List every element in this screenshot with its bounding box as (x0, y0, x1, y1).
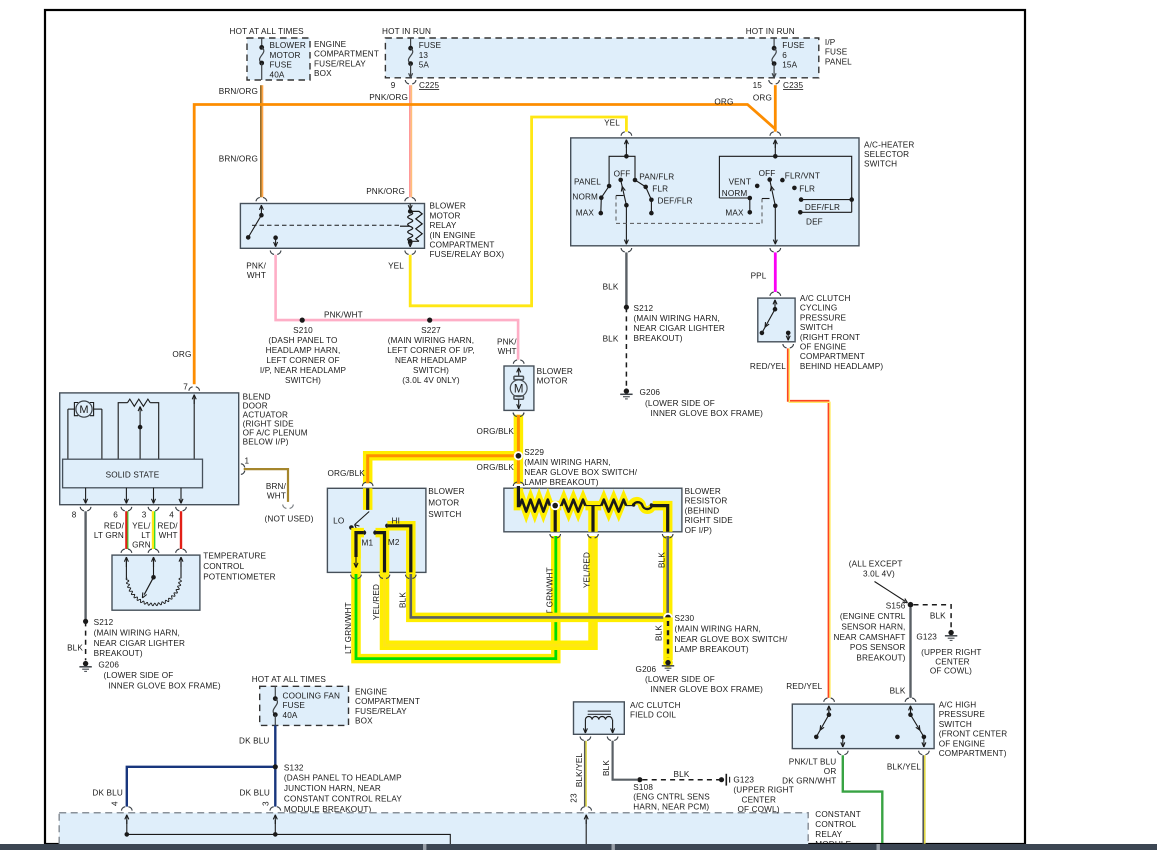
svg-text:9: 9 (391, 81, 396, 90)
field coil symbol (588, 710, 611, 712)
svg-text:LT: LT (141, 531, 150, 540)
svg-text:S132: S132 (284, 763, 304, 772)
svg-text:BLK: BLK (930, 611, 946, 620)
svg-text:BLK: BLK (398, 592, 407, 608)
svg-text:COMPARTMENT: COMPARTMENT (800, 352, 865, 361)
svg-text:FLR/VNT: FLR/VNT (785, 172, 820, 181)
wire ORG/BLK (blower motor to S229) highlighted (514, 415, 524, 456)
pin 7 wire inside actuator (193, 395, 195, 404)
svg-text:OF ENGINE: OF ENGINE (939, 739, 986, 748)
connector arcs into potentiometer (121, 549, 125, 553)
resistor tap junctions (554, 506, 557, 532)
svg-text:M1: M1 (362, 539, 374, 548)
svg-text:RED/YEL: RED/YEL (750, 362, 786, 371)
svg-text:3: 3 (142, 511, 147, 520)
connector arc YEL into selector switch (621, 132, 625, 136)
wire RED/WHT (pin 4 to potentiometer) (180, 511, 182, 549)
svg-text:CONTROL: CONTROL (203, 562, 244, 571)
svg-text:PAN/FLR: PAN/FLR (639, 172, 674, 181)
svg-text:8: 8 (72, 511, 77, 520)
connector C235 (769, 80, 773, 84)
connector arc PNK/ORG into relay (405, 197, 409, 201)
connector arc BRN/ORG into relay (256, 197, 260, 201)
svg-text:G123: G123 (916, 633, 937, 642)
fuse: cooling fan fuse 40A (274, 686, 276, 698)
svg-text:S210: S210 (293, 326, 313, 335)
svg-text:(LOWER SIDE OF: (LOWER SIDE OF (645, 675, 715, 684)
svg-text:BLOWER: BLOWER (537, 367, 573, 376)
svg-text:C235: C235 (783, 81, 803, 90)
svg-text:6: 6 (113, 511, 118, 520)
relay coil (409, 204, 411, 212)
svg-text:FUSE/RELAY: FUSE/RELAY (314, 59, 366, 68)
svg-text:40A: 40A (283, 711, 298, 720)
wire BLK/YEL (field coil to CCRM pin 23) (584, 741, 586, 807)
svg-text:CENTER: CENTER (742, 795, 777, 804)
svg-text:A/C-HEATER: A/C-HEATER (864, 140, 914, 149)
svg-text:BLEND: BLEND (243, 393, 271, 402)
svg-text:DOOR: DOOR (243, 402, 268, 411)
svg-text:BRN/: BRN/ (266, 482, 287, 491)
svg-text:SWITCH: SWITCH (939, 720, 972, 729)
wire PNK/WHT (relay to blower motor) (276, 255, 518, 360)
svg-text:MAX: MAX (576, 209, 595, 218)
svg-text:ORG: ORG (753, 94, 772, 103)
svg-text:DEF/FLR: DEF/FLR (805, 203, 840, 212)
svg-text:BLOWER: BLOWER (428, 487, 464, 496)
svg-text:(3.0L 4V 0NLY): (3.0L 4V 0NLY) (402, 376, 460, 385)
svg-text:1: 1 (245, 457, 250, 466)
svg-text:LT GRN/WHT: LT GRN/WHT (344, 602, 353, 654)
svg-text:SWITCH: SWITCH (428, 510, 461, 519)
svg-text:PNK/ORG: PNK/ORG (369, 93, 408, 102)
svg-text:NEAR CAMSHAFT: NEAR CAMSHAFT (833, 633, 905, 642)
wire BLK/YEL (high pressure switch down) (922, 755, 924, 844)
svg-text:OF COWL): OF COWL) (738, 805, 780, 814)
svg-text:MOTOR: MOTOR (270, 51, 301, 60)
svg-text:YEL: YEL (604, 119, 620, 128)
connector arcs below blower resistor (over wires) (550, 534, 554, 538)
svg-text:WHT: WHT (498, 347, 517, 356)
svg-text:(IN ENGINE: (IN ENGINE (430, 231, 476, 240)
wire BLK (resistor to S230) highlighted (663, 536, 673, 617)
svg-text:RED/: RED/ (158, 521, 179, 530)
svg-text:PRESSURE: PRESSURE (800, 313, 847, 322)
wire BLK (S156 to high pressure switch) (909, 608, 911, 698)
coil: A/C clutch field coil box (574, 702, 625, 734)
svg-text:WHT: WHT (267, 492, 286, 501)
svg-text:CONSTANT CONTROL RELAY: CONSTANT CONTROL RELAY (284, 795, 402, 804)
svg-text:HARN, NEAR PCM): HARN, NEAR PCM) (633, 802, 709, 811)
svg-text:3: 3 (262, 801, 271, 806)
svg-text:POTENTIOMETER: POTENTIOMETER (203, 572, 275, 581)
wire ORG/BLK (S229 to blower resistor) highlighted (514, 456, 524, 484)
svg-text:LT GRN/WHT: LT GRN/WHT (545, 567, 554, 619)
svg-text:HOT IN RUN: HOT IN RUN (746, 27, 795, 36)
svg-text:DEF/FLR: DEF/FLR (658, 196, 693, 205)
svg-text:MAX: MAX (725, 209, 744, 218)
svg-text:FUSE: FUSE (283, 701, 306, 710)
connector arc ORG into selector switch (770, 132, 774, 136)
svg-text:LEFT CORNER OF I/P,: LEFT CORNER OF I/P, (387, 346, 475, 355)
svg-text:PNK/: PNK/ (246, 262, 266, 271)
svg-text:CONSTANT: CONSTANT (815, 810, 861, 819)
svg-text:(MAIN WIRING HARN,: (MAIN WIRING HARN, (524, 458, 610, 467)
svg-text:ENGINE: ENGINE (355, 688, 388, 697)
svg-text:COMPARTMENT: COMPARTMENT (355, 697, 420, 706)
svg-text:HOT IN RUN: HOT IN RUN (382, 27, 431, 36)
svg-text:G123: G123 (733, 775, 754, 784)
svg-text:BLK: BLK (657, 552, 666, 568)
svg-text:4: 4 (169, 511, 174, 520)
svg-text:S212: S212 (634, 304, 654, 313)
wire ORG (C235 to selector switch and to blend door actuator) (774, 85, 777, 132)
svg-text:OF ENGINE: OF ENGINE (800, 343, 847, 352)
svg-text:M: M (514, 383, 524, 395)
switch: A/C clutch cycling pressure switch (758, 298, 795, 342)
contact LO (349, 525, 354, 530)
solid state block (63, 459, 203, 488)
svg-text:G206: G206 (640, 388, 661, 397)
svg-text:GRN: GRN (132, 541, 151, 550)
svg-text:FLR: FLR (799, 185, 815, 194)
svg-text:ORG: ORG (714, 98, 733, 107)
svg-text:BLK/YEL: BLK/YEL (575, 753, 584, 788)
wire BLK dashed to ground (625, 307, 627, 388)
ground G206 (right) (624, 388, 629, 393)
fuse: blower motor fuse 40A (261, 38, 263, 47)
svg-text:JUNCTION HARN, NEAR: JUNCTION HARN, NEAR (284, 784, 381, 793)
svg-text:23: 23 (570, 793, 579, 803)
contact M2 with wire to pin (373, 530, 378, 535)
svg-text:S229: S229 (524, 448, 544, 457)
svg-text:NORM: NORM (572, 193, 598, 202)
svg-text:VENT: VENT (729, 177, 751, 186)
svg-text:G206: G206 (636, 665, 657, 674)
wire BLK (switch HI to S230) highlighted (411, 574, 668, 617)
svg-text:HOT AT ALL TIMES: HOT AT ALL TIMES (230, 27, 305, 36)
svg-text:CENTER: CENTER (935, 657, 970, 666)
connector arc PNK/WHT out of relay (270, 251, 274, 255)
connector arc ORG/BLK into blower resistor (513, 482, 517, 486)
svg-text:DK GRN/WHT: DK GRN/WHT (782, 777, 836, 786)
wire LT GRN/WHT (switch M1 to resistor) highlighted (356, 536, 556, 659)
svg-text:(UPPER RIGHT: (UPPER RIGHT (921, 648, 981, 657)
splice S210 (300, 318, 305, 323)
svg-text:RIGHT SIDE: RIGHT SIDE (685, 516, 734, 525)
contact M1 with wire to pin (362, 530, 367, 535)
wire DK GRN/WHT (high pressure switch to CCRM) (843, 755, 883, 843)
svg-text:3.0L 4V): 3.0L 4V) (863, 570, 895, 579)
svg-text:HEADLAMP HARN,: HEADLAMP HARN, (266, 346, 341, 355)
wire RED/YEL (cycling switch to high pressure switch) (788, 348, 829, 698)
svg-text:A/C CLUTCH: A/C CLUTCH (630, 701, 681, 710)
selector switch right section (mode) (774, 140, 776, 148)
svg-text:13: 13 (419, 51, 429, 60)
svg-text:(MAIN WIRING HARN,: (MAIN WIRING HARN, (388, 336, 474, 345)
selector switch left section (blower speed) (625, 140, 627, 148)
svg-text:(MAIN WIRING HARN,: (MAIN WIRING HARN, (675, 624, 761, 633)
svg-text:OFF: OFF (614, 169, 631, 178)
svg-text:BLOWER: BLOWER (270, 41, 306, 50)
svg-text:(RIGHT FRONT: (RIGHT FRONT (800, 333, 860, 342)
svg-text:PNK/WHT: PNK/WHT (324, 311, 363, 320)
svg-text:CYCLING: CYCLING (800, 304, 837, 313)
svg-text:BEHIND HEADLAMP): BEHIND HEADLAMP) (800, 362, 884, 371)
svg-text:WHT: WHT (159, 531, 178, 540)
svg-text:COMPARTMENT: COMPARTMENT (314, 50, 379, 59)
svg-text:RED/YEL: RED/YEL (786, 682, 822, 691)
fuse box: engine compartment fuse/relay box (cooling fan) (260, 686, 349, 725)
svg-text:OF COWL): OF COWL) (930, 667, 972, 676)
svg-text:FUSE: FUSE (825, 48, 848, 57)
svg-text:BLK: BLK (603, 283, 619, 292)
svg-text:BLOWER: BLOWER (685, 487, 721, 496)
svg-text:RESISTOR: RESISTOR (685, 497, 728, 506)
connector C225 (405, 80, 409, 84)
svg-text:DEF: DEF (806, 217, 823, 226)
ground G206 (center, below S230) (663, 658, 673, 668)
svg-text:(LOWER SIDE OF: (LOWER SIDE OF (645, 399, 715, 408)
svg-text:SWITCH): SWITCH) (285, 376, 321, 385)
blower motor switch internals highlighted (363, 488, 373, 510)
splice S230 (663, 613, 672, 622)
wire PNK/ORG vertical (C225 to relay) (409, 85, 411, 197)
svg-text:WHT: WHT (247, 271, 266, 280)
svg-text:BOX: BOX (314, 69, 332, 78)
svg-text:FUSE: FUSE (270, 61, 293, 70)
svg-text:OFF: OFF (759, 169, 776, 178)
svg-text:(UPPER RIGHT: (UPPER RIGHT (733, 786, 793, 795)
svg-text:BREAKOUT): BREAKOUT) (94, 649, 143, 658)
svg-text:YEL/: YEL/ (132, 521, 151, 530)
thermal limiter (633, 502, 652, 509)
switch: A/C high pressure switch box (792, 704, 934, 749)
blower resistor internal wiring highlighted (518, 488, 520, 505)
contact HI with wire to pin (385, 524, 390, 529)
svg-text:RELAY: RELAY (815, 830, 842, 839)
connector arc BLK out of selector switch (621, 248, 625, 252)
svg-text:5A: 5A (419, 61, 430, 70)
svg-text:ORG/BLK: ORG/BLK (477, 463, 515, 472)
motor: blower motor (504, 366, 534, 410)
fuse F6 15A (773, 38, 775, 48)
svg-text:BRN/ORG: BRN/ORG (219, 87, 258, 96)
svg-text:NORM: NORM (722, 189, 748, 198)
fuse box: I/P fuse panel (385, 38, 818, 78)
svg-text:ORG/BLK: ORG/BLK (477, 427, 515, 436)
svg-text:LEFT CORNER OF: LEFT CORNER OF (266, 356, 339, 365)
svg-text:(FRONT CENTER: (FRONT CENTER (939, 730, 1008, 739)
connector arcs into CCRM (122, 807, 126, 811)
svg-text:I/P: I/P (825, 38, 836, 47)
svg-text:NEAR HEADLAMP: NEAR HEADLAMP (395, 356, 467, 365)
relay: blower motor relay box (240, 204, 424, 249)
svg-text:(LOWER SIDE OF: (LOWER SIDE OF (104, 671, 174, 680)
high pressure switch left contacts (828, 706, 830, 713)
connector arcs below field coil (580, 737, 584, 741)
connector arcs below blower motor switch (over wires) (351, 575, 355, 579)
wire DK BLU (fuse to S132 and CCRM pins) (274, 725, 276, 806)
splice S108 (637, 777, 642, 782)
svg-text:OF A/C PLENUM: OF A/C PLENUM (243, 429, 308, 438)
svg-text:A/C HIGH: A/C HIGH (939, 701, 977, 710)
svg-text:BLK: BLK (603, 335, 619, 344)
svg-text:HOT AT ALL TIMES: HOT AT ALL TIMES (252, 675, 327, 684)
svg-text:G206: G206 (98, 661, 119, 670)
svg-text:MOTOR: MOTOR (430, 211, 461, 220)
splice S132 (273, 764, 278, 769)
svg-text:(DASH PANEL TO HEADLAMP: (DASH PANEL TO HEADLAMP (284, 774, 402, 783)
svg-text:COMPARTMENT: COMPARTMENT (430, 241, 495, 250)
ground G123 (lower) (719, 777, 724, 782)
svg-text:PRESSURE: PRESSURE (939, 710, 986, 719)
svg-text:FUSE/RELAY BOX): FUSE/RELAY BOX) (430, 250, 505, 259)
potentiometer resistive arc (126, 578, 181, 606)
svg-text:LAMP BREAKOUT): LAMP BREAKOUT) (675, 645, 749, 654)
svg-text:OF I/P): OF I/P) (685, 526, 713, 535)
svg-text:SWITCH: SWITCH (800, 323, 833, 332)
fuse F13 5A (410, 38, 412, 48)
switch: blower motor switch box (327, 488, 426, 572)
svg-text:BREAKOUT): BREAKOUT) (634, 334, 683, 343)
svg-text:HI: HI (392, 517, 401, 526)
svg-text:FLR: FLR (652, 185, 668, 194)
svg-text:MOTOR: MOTOR (537, 377, 568, 386)
splice S227 (427, 318, 432, 323)
svg-text:FUSE: FUSE (419, 41, 442, 50)
svg-text:ORG/BLK: ORG/BLK (327, 469, 365, 478)
svg-text:(MAIN WIRING HARN,: (MAIN WIRING HARN, (94, 628, 180, 637)
svg-text:15A: 15A (782, 61, 797, 70)
svg-text:I/P, NEAR HEADLAMP: I/P, NEAR HEADLAMP (260, 366, 347, 375)
svg-text:LT GRN: LT GRN (94, 531, 124, 540)
connector arc below blower motor (over wire) (513, 413, 517, 417)
svg-text:ENGINE: ENGINE (314, 40, 347, 49)
svg-text:BLK/YEL: BLK/YEL (887, 762, 922, 771)
svg-text:4: 4 (111, 801, 120, 806)
high pressure switch right contacts (910, 706, 912, 713)
wire BLK (selector switch to S212) (625, 252, 627, 307)
feedback potentiometer symbol (128, 399, 151, 406)
svg-text:BLK: BLK (655, 625, 664, 641)
splice S212 (right) (624, 305, 629, 310)
svg-text:PANEL: PANEL (825, 57, 852, 66)
svg-text:TEMPERATURE: TEMPERATURE (203, 552, 266, 561)
svg-text:6: 6 (782, 51, 787, 60)
svg-text:ORG: ORG (172, 350, 191, 359)
svg-text:PNK/: PNK/ (497, 338, 517, 347)
wire YEL (relay to selector switch) (410, 117, 626, 306)
wire ORG/BLK (S229 to blower motor switch) highlighted (368, 456, 519, 484)
blower motor symbol (514, 376, 524, 379)
selector switch mechanical dashed link (616, 195, 624, 197)
svg-text:BLK: BLK (67, 644, 83, 653)
ground G123 (upper) (948, 630, 953, 635)
svg-text:BLOWER: BLOWER (430, 202, 466, 211)
svg-text:DK BLU: DK BLU (239, 737, 269, 746)
wire RED/LT GRN (pin 6 to potentiometer) (125, 511, 127, 549)
svg-text:POS SENSOR: POS SENSOR (850, 643, 906, 652)
svg-text:M: M (79, 404, 88, 416)
svg-text:BELOW I/P): BELOW I/P) (243, 438, 289, 447)
svg-text:MOTOR: MOTOR (428, 499, 459, 508)
svg-text:BRN/ORG: BRN/ORG (219, 155, 258, 164)
svg-text:7: 7 (183, 383, 188, 392)
svg-text:NEAR CIGAR LIGHTER: NEAR CIGAR LIGHTER (94, 639, 185, 648)
relay internal dashed link (252, 224, 400, 226)
svg-text:YEL/RED: YEL/RED (583, 552, 592, 588)
fuse box: engine compartment fuse/relay box (top left) (247, 38, 310, 80)
connector arcs below actuator (80, 507, 84, 511)
module: constant control relay module box (59, 813, 808, 850)
svg-text:(ENG CNTRL SENS: (ENG CNTRL SENS (633, 793, 710, 802)
svg-text:COOLING FAN: COOLING FAN (283, 692, 341, 701)
actuator: blend door actuator box (60, 393, 239, 505)
connector arc ORG into blend door actuator pin 7 (189, 387, 193, 391)
svg-text:(NOT USED): (NOT USED) (265, 515, 314, 524)
svg-text:(ENGINE CNTRL: (ENGINE CNTRL (840, 612, 906, 621)
svg-text:CONTROL: CONTROL (815, 820, 856, 829)
wire BLK (actuator pin 8 to S212 left) (84, 511, 86, 621)
splice S156 (908, 602, 914, 608)
resistor block: blower resistor box (504, 488, 682, 532)
svg-text:SWITCH: SWITCH (864, 160, 897, 169)
wire PPL (selector switch to pressure switch) (774, 252, 777, 292)
wire BRN/ORG vertical (fuse to relay) (260, 85, 262, 197)
svg-text:SELECTOR: SELECTOR (864, 150, 909, 159)
actuator output pins (85, 488, 87, 504)
svg-text:PANEL: PANEL (574, 177, 601, 186)
svg-text:RELAY: RELAY (430, 221, 457, 230)
connector arc ORG/BLK into blower motor switch (362, 482, 366, 486)
svg-text:PPL: PPL (751, 272, 767, 281)
svg-text:S212: S212 (94, 618, 114, 627)
svg-text:OR: OR (824, 767, 837, 776)
svg-text:PNK/LT BLU: PNK/LT BLU (789, 757, 837, 766)
svg-text:S108: S108 (633, 783, 653, 792)
svg-text:BLK: BLK (890, 687, 906, 696)
svg-text:ACTUATOR: ACTUATOR (243, 411, 288, 420)
splice S212 (left) (83, 619, 88, 624)
wire BLK dashed S156 to G123 upper (914, 605, 952, 630)
wire BLK dashed to G206 (left) (85, 621, 87, 660)
connector arc PPL out of selector switch (770, 248, 774, 252)
wire BLK dashed S230 to G206 highlighted (663, 617, 673, 660)
wire YEL/RED (switch M2 to resistor) highlighted (385, 536, 594, 645)
wire YEL/LT GRN (pin 3 to potentiometer) (152, 511, 154, 549)
ground G206 (left) (83, 661, 88, 666)
svg-text:NEAR CIGAR LIGHTER: NEAR CIGAR LIGHTER (634, 324, 725, 333)
svg-text:INNER GLOVE BOX FRAME): INNER GLOVE BOX FRAME) (108, 681, 221, 690)
potentiometer: temperature control potentiometer box (112, 555, 200, 610)
connector arc YEL out of relay (405, 251, 409, 255)
connector arcs below high pressure switch (838, 751, 842, 755)
svg-text:40A: 40A (270, 70, 285, 79)
svg-text:(DASH PANEL TO: (DASH PANEL TO (268, 336, 337, 345)
svg-text:C225: C225 (419, 81, 439, 90)
svg-text:15: 15 (753, 81, 763, 90)
svg-text:NEAR GLOVE BOX SWITCH/: NEAR GLOVE BOX SWITCH/ (675, 635, 789, 644)
svg-text:DK BLU: DK BLU (240, 789, 270, 798)
svg-text:S230: S230 (675, 614, 695, 623)
CCRM internal wiring (126, 815, 128, 824)
splice S229 (514, 451, 523, 460)
svg-text:FIELD COIL: FIELD COIL (630, 711, 676, 720)
svg-text:S227: S227 (421, 326, 441, 335)
svg-text:S156: S156 (886, 601, 906, 610)
svg-text:YEL: YEL (388, 262, 404, 271)
